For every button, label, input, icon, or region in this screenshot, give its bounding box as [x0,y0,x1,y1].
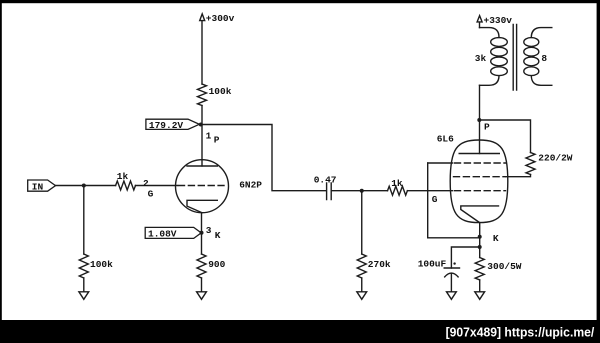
svg-text:1: 1 [206,131,212,142]
resistor R8 300/5W cathode [475,258,484,280]
flag IN [28,180,56,191]
power supply +330v triangle [477,16,482,22]
node dot 6L6 plate P [477,118,481,122]
resistor R7 220/2W screen [526,153,535,175]
wire 1k to 6L6 grid [408,190,453,192]
resistor R5 270k grid leak [357,254,366,278]
node dot coupling junction [360,189,364,193]
svg-text:[907x489] https://upic.me/: [907x489] https://upic.me/ [446,325,595,340]
resistor R4 900 cathode [197,254,206,278]
svg-text:1.08V: 1.08V [148,229,177,240]
power supply +300v triangle [200,14,205,21]
tube U1 6N2P envelope [176,160,229,213]
border right [597,0,600,343]
wire 270k to ground [361,278,363,292]
wire transformer primary to P node to 6L6 plate [479,85,481,153]
node dot 6L6 cathode g3 tie [478,235,482,239]
svg-text:100uF: 100uF [418,259,447,270]
tube U2 grid g2 (dashed) [454,176,506,178]
svg-text:100k: 100k [90,259,113,270]
ground 100uF [447,292,457,300]
bottom bar [0,320,600,343]
wire 900 to ground [201,278,203,292]
svg-text:K: K [493,233,499,244]
ground 270k [357,292,367,300]
wire cap to junction node [332,190,388,192]
capacitor C2 100uF cathode bypass [444,268,459,277]
ground 300/5W [475,292,485,300]
transformer T1 secondary bottom lead [531,76,552,86]
wire 6N2P cathode down to 900 [201,213,203,254]
resistor R2 100k input grid leak [79,254,88,278]
node dot 6L6 cathode cap tie [478,245,482,249]
wire 100k to ground [83,278,85,292]
svg-text:900: 900 [208,259,225,270]
capacitor C1 0.47 coupling [327,183,332,200]
wire IN flag to 1k [56,185,116,187]
svg-text:220/2W: 220/2W [538,152,573,163]
svg-text:K: K [215,230,221,241]
svg-text:P: P [214,134,220,145]
resistor R6 1k grid stopper 2 [388,186,408,195]
wire 1k to 6N2P grid [135,185,177,187]
svg-text:P: P [484,122,490,133]
wire 100k bottom to plate node to tube plate [201,106,203,167]
svg-text:1k: 1k [117,171,129,182]
transformer T1 primary winding 3k [491,38,508,47]
ground 900 [197,292,207,300]
wire cathode node to 100uF [451,247,479,268]
wire suppressor grid lead [428,162,453,164]
border left [0,0,2,343]
resistor R1 100k plate load [198,84,207,105]
svg-text:2: 2 [143,178,149,189]
tube U2 cathode [461,206,499,223]
svg-text:3: 3 [206,225,212,236]
svg-text:270k: 270k [368,259,391,270]
svg-text:6N2P: 6N2P [239,180,262,191]
wire plate node to coupling cap [201,125,327,191]
resistor R3 1k grid stopper [116,181,136,190]
tube U1 plate [187,165,217,167]
wire B+ rail to 100k plate resistor [201,21,203,85]
wire +330v to transformer primary [479,22,481,28]
wire 100uF to ground [450,274,452,292]
svg-text:0.47: 0.47 [314,174,337,185]
wire input node down to 100k [83,186,85,255]
svg-text:100k: 100k [209,86,232,97]
wire 6L6 cathode down to 300/5W [479,223,481,258]
wire 220/2W to screen grid [506,175,531,177]
border top [0,0,600,3]
svg-text:G: G [432,194,438,205]
transformer T1 core [513,25,516,91]
transformer T1 secondary winding 8 [524,38,539,47]
wire junction down to 270k [361,191,363,254]
svg-text:3k: 3k [475,53,487,64]
transformer T1 primary bottom lead [480,76,500,86]
svg-text:6L6: 6L6 [437,133,454,144]
svg-text:8: 8 [541,53,547,64]
ground input 100k [79,292,89,300]
tube U1 cathode [187,200,217,212]
tube U2 6L6 envelope [450,140,508,223]
tube U2 grid g3 (dashed) [455,162,507,164]
node dot input [82,184,86,188]
svg-text:300/5W: 300/5W [487,261,522,272]
svg-text:+330v: +330v [484,15,513,26]
svg-text:1k: 1k [391,178,403,189]
svg-text:+300v: +300v [206,13,235,24]
flag voltage 1.08V [145,227,201,238]
wire suppressor to cathode loop [428,163,480,238]
flag voltage 179.2V [146,119,199,129]
wire 300/5W to ground [479,280,481,292]
tube U2 plate [459,153,499,155]
transformer T1 primary top lead [480,28,500,38]
svg-text:179.2V: 179.2V [149,120,184,131]
transformer T1 secondary top lead [531,28,552,38]
wire P node to 220/2W screen resistor [480,120,531,153]
node dot 6N2P plate [199,123,203,127]
svg-text:G: G [148,189,154,200]
tube U1 grid (dashed) [179,185,225,187]
capacitor C2 polarity mark [453,262,455,264]
tube U2 grid g1 (dashed) [455,190,506,192]
node dot 6N2P cathode [200,231,204,235]
svg-text:IN: IN [32,181,44,192]
